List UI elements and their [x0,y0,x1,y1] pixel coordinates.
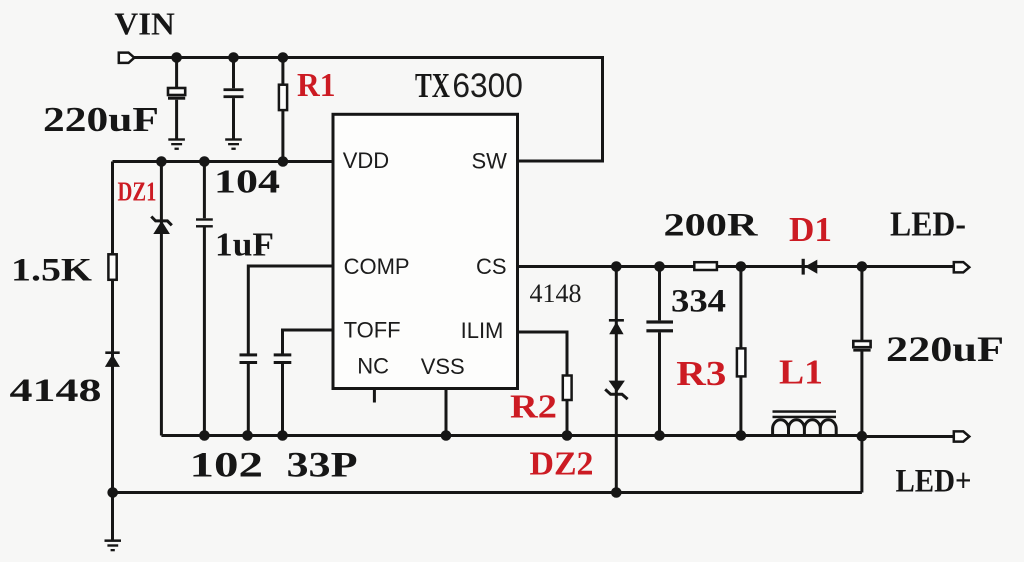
label TX6300 [415,66,523,105]
op-amp U1 TX6300 IC box [333,114,518,388]
svg-text:1.5K: 1.5K [11,253,92,289]
svg-text:4148: 4148 [10,373,102,409]
wire ILIM / R2 branch [518,332,568,436]
svg-text:DZ2: DZ2 [530,446,594,483]
svg-text:TX: TX [415,66,450,105]
wire COMP branch [248,266,333,436]
svg-text:220uF: 220uF [43,101,159,139]
svg-text:COMP: COMP [344,254,410,279]
diode D1 [802,259,818,275]
svg-text:33P: 33P [287,445,358,485]
capacitor 334 [646,320,673,332]
resistor 200R [694,262,717,270]
wire VSS branch [445,389,448,436]
svg-text:CS: CS [476,254,507,279]
svg-text:R1: R1 [297,67,336,104]
capacitor 1uF [196,218,213,227]
svg-text:ILIM: ILIM [461,318,504,343]
svg-text:R3: R3 [676,354,726,393]
resistor 1.5K [108,254,116,279]
wire DZ1 column [160,162,163,436]
resistor R3 [737,348,746,376]
wire 334 column [658,267,661,436]
svg-text:1uF: 1uF [215,227,274,264]
capacitor 33P (TOFF) [274,353,292,364]
wire R1 column [281,58,284,162]
wire top rail VIN to SW loop [133,58,603,162]
svg-text:NC: NC [357,354,389,379]
svg-text:LED-: LED- [890,205,966,244]
zener diode DZ1 [151,217,172,235]
ground bottom left [105,539,122,551]
zener diode DZ2 [605,381,627,400]
wire DZ2 column [615,267,618,493]
svg-text:DZ1: DZ1 [118,176,157,207]
svg-text:D1: D1 [789,210,832,249]
wire LED+ output [862,435,954,438]
connector LED- terminal [954,262,970,272]
capacitor 102 (COMP) [240,353,258,364]
svg-text:200R: 200R [664,208,759,244]
svg-text:VIN: VIN [114,6,174,42]
ground under C1 [168,138,185,150]
wire LED+ ground rail [113,491,862,494]
wire bottom rail [161,434,862,437]
svg-text:SW: SW [472,149,508,174]
svg-text:L1: L1 [779,352,823,391]
diode above DZ2 [609,319,624,334]
connector VIN terminal [119,53,135,63]
wire cap C1 column [175,58,178,140]
svg-text:102: 102 [190,445,264,485]
connector LED+ terminal [954,431,970,441]
wire CS rail [518,265,954,268]
svg-text:VSS: VSS [421,354,465,379]
svg-text:6300: 6300 [452,67,523,105]
ground under C2 [225,138,242,150]
wire VDD rail [113,160,334,163]
svg-text:VDD: VDD [343,148,389,173]
wire left column [111,162,114,540]
svg-text:LED+: LED+ [896,464,972,500]
wire 1uF column [203,162,206,436]
svg-text:TOFF: TOFF [344,317,401,342]
capacitor C2 [224,88,244,98]
wire cap C2 column [232,58,235,140]
inductor L1 [773,410,837,436]
wire R3 column [739,267,742,436]
wire NC stub [373,389,376,403]
resistor R2 [563,376,572,401]
resistor R1 [279,85,287,110]
svg-text:334: 334 [671,284,726,320]
wire output cap column [860,267,863,493]
svg-text:104: 104 [214,164,280,201]
svg-text:4148: 4148 [530,278,582,308]
svg-text:R2: R2 [510,389,557,426]
wire TOFF branch [283,330,334,436]
diode 4148 left [105,351,120,367]
capacitor 220uF output electrolytic [853,341,870,352]
svg-text:220uF: 220uF [886,329,1004,369]
capacitor C1 220uF electrolytic [168,88,185,100]
